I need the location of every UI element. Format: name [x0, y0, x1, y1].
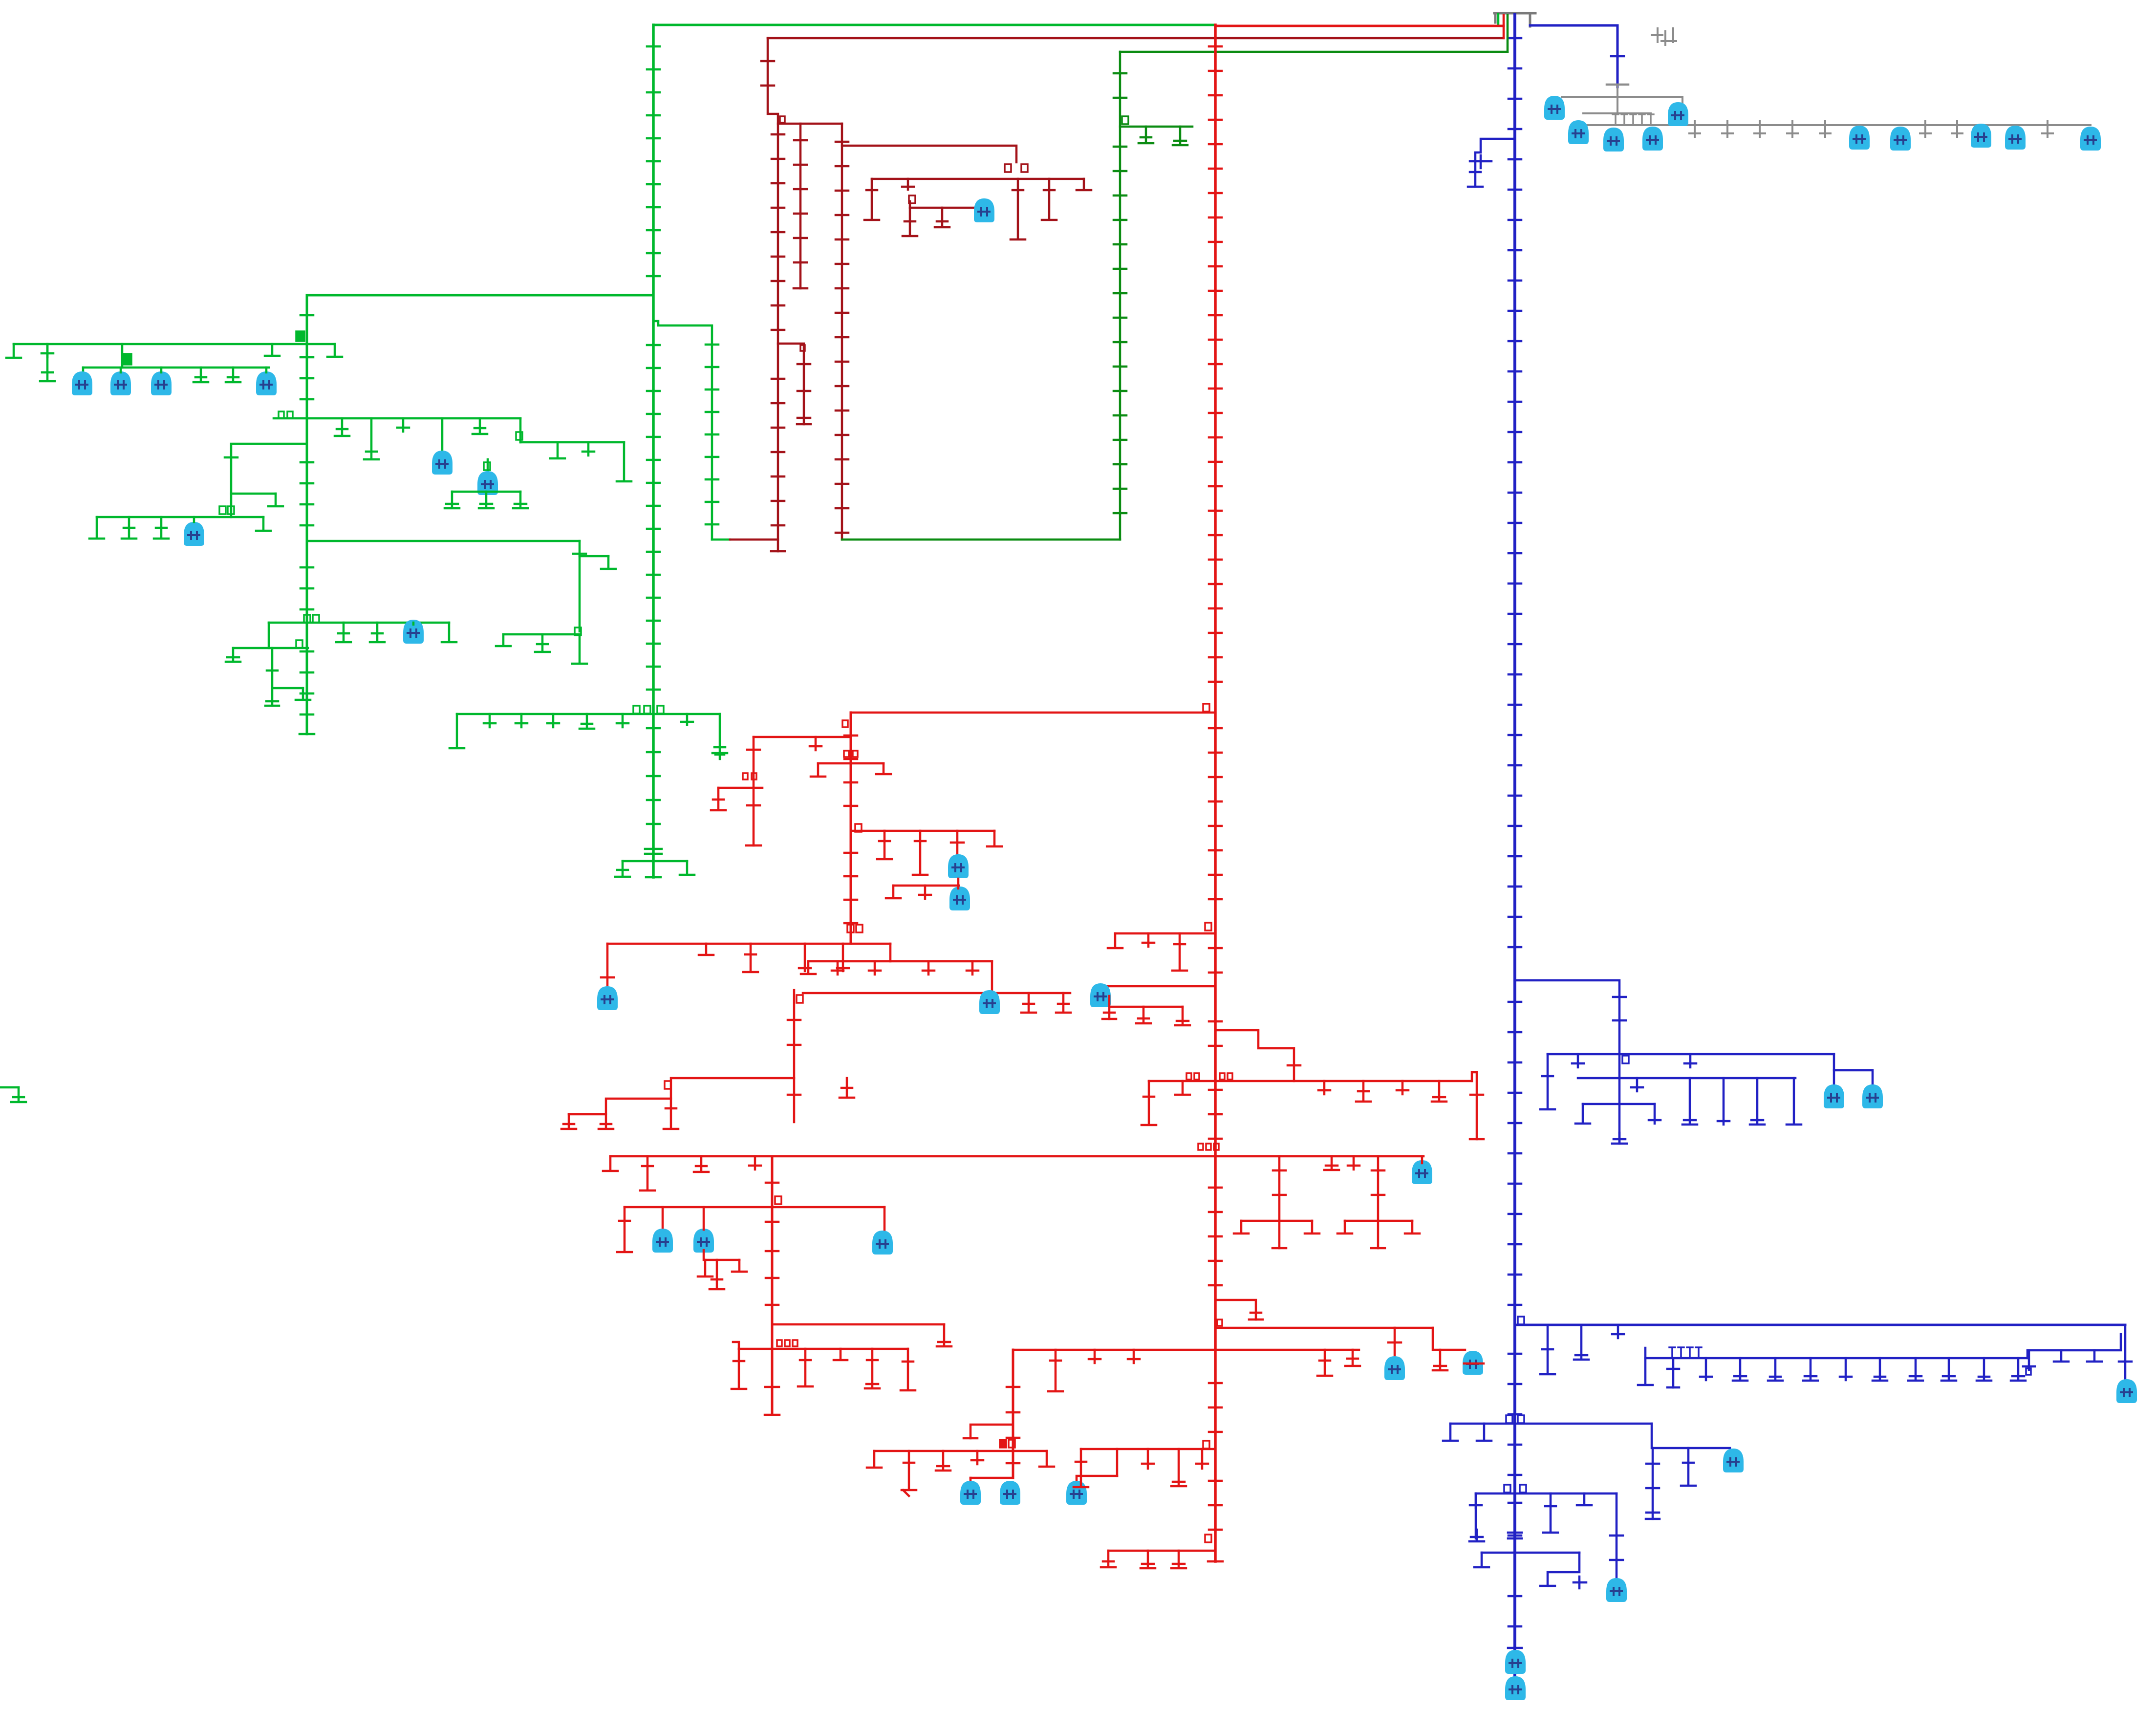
- transformer red-7: [1384, 1356, 1405, 1380]
- green bG bloblink: [193, 517, 195, 522]
- red spine1580 tap2370: [766, 1182, 778, 1184]
- green swI: [575, 627, 581, 635]
- red b3173 tap3: [1171, 1551, 1186, 1568]
- green b752 bloblink2: [120, 368, 122, 372]
- red b2762 tap6: [1345, 1350, 1360, 1366]
- red b2060 tap1: [1136, 1007, 1151, 1023]
- red T5 tap5: [837, 944, 849, 971]
- red b2717 jog hang: [1433, 1350, 1447, 1370]
- red RV3 bloblink: [970, 1477, 1013, 1479]
- red bus2032: [803, 992, 1070, 995]
- blue S2 junction switch: [1518, 1317, 1524, 1324]
- red b2208 tap5: [1432, 1081, 1446, 1102]
- transformer maroon-1: [974, 198, 994, 222]
- red b2208 tap3: [1356, 1081, 1371, 1102]
- green b1461 tap6: [681, 714, 693, 725]
- maroon trunk MV2: [841, 124, 843, 540]
- red b2969 tap1: [902, 1451, 916, 1490]
- red swT4: [855, 824, 862, 832]
- red C1 spine ticks: [747, 749, 760, 751]
- red b1818 tap: [919, 886, 931, 899]
- green bus704: [14, 343, 335, 346]
- blue riser tap: [1611, 55, 1624, 58]
- red b2710 rightdrop: [937, 1324, 951, 1346]
- red spine RV2: [850, 713, 852, 944]
- transformer red-5: [1090, 983, 1111, 1007]
- green b704 hang2: [265, 344, 280, 356]
- transformer blue btm-right: [1606, 1578, 1627, 1602]
- transformer red-14: [1066, 1481, 1087, 1505]
- blue S2 sub tap 7: [1840, 1358, 1852, 1380]
- red b2370 tap1: [640, 1156, 655, 1190]
- red bus3173: [1108, 1550, 1215, 1552]
- green b752 bloblink4: [265, 368, 268, 372]
- transformer gray-6: [1849, 126, 1870, 150]
- red b2208 jog tap: [1470, 1094, 1483, 1096]
- green bC blobdrop: [441, 418, 444, 473]
- red b3173 tap1: [1101, 1551, 1116, 1567]
- green b1461 hang R: [712, 714, 727, 753]
- maroon v1638 end bar: [794, 287, 807, 290]
- blue S1 tap 2: [1572, 1054, 1584, 1067]
- red C1 hangL: [711, 788, 726, 810]
- transformer red-11: [693, 1229, 714, 1253]
- blue S2 sub hang2 end: [1667, 1386, 1679, 1389]
- red stair tapA: [561, 1114, 576, 1129]
- red b2470 blobdrop2: [703, 1207, 705, 1230]
- red b2208 tap2: [1318, 1081, 1330, 1094]
- maroon lower branch: [778, 344, 804, 424]
- red T6 tap3: [923, 961, 934, 974]
- green bI end: [572, 634, 587, 664]
- blue bottom junction sw1: [1504, 1485, 1510, 1493]
- transformer gray-3: [1603, 128, 1624, 151]
- gray link down: [1682, 97, 1683, 125]
- blue S2 sub hang 10: [1941, 1358, 1956, 1381]
- red T3 sw2: [853, 751, 858, 757]
- gray upper lateral: [1562, 96, 1682, 98]
- red busT5: [607, 943, 890, 945]
- red spine1580 lowtap: [766, 1221, 778, 1223]
- blue S1 junction switch: [1622, 1056, 1629, 1063]
- red bus2470: [625, 1206, 884, 1209]
- transformer gray-1: [1544, 96, 1565, 120]
- blue S1 hang 1: [1540, 1054, 1555, 1109]
- red b2208 jog end: [1470, 1138, 1484, 1141]
- green bH joghang: [601, 556, 616, 569]
- blue riser to gray net: [1617, 25, 1619, 87]
- red sw2208d: [1228, 1073, 1232, 1080]
- maroon b366 tap2: [902, 179, 914, 190]
- blue S2 sub tap 2: [1667, 1358, 1679, 1387]
- green bK drop: [271, 648, 274, 706]
- red sw2208a: [1186, 1073, 1191, 1080]
- green sw1461b: [644, 706, 650, 714]
- blue S2 sub hang 4: [1733, 1358, 1747, 1381]
- red b1910 tap1: [1143, 933, 1154, 947]
- maroon lowbranch taps: [798, 364, 810, 418]
- red bus2018: [1103, 985, 1215, 988]
- red b2470 right end: [884, 1207, 886, 1232]
- green bus604: [307, 294, 653, 297]
- blue S1 bus A: [1548, 1053, 1834, 1056]
- transformer blue S3: [1723, 1449, 1744, 1472]
- transformer gray-8: [1971, 124, 1991, 148]
- red spine1580 low: [765, 1387, 779, 1415]
- blue S2 right hang b: [2054, 1350, 2069, 1362]
- red bus1818: [893, 885, 959, 887]
- red b2060 hangR: [1175, 1007, 1190, 1025]
- red bus2578: [705, 1259, 739, 1261]
- green subG link: [231, 444, 307, 517]
- gray tap 3: [1754, 121, 1765, 137]
- green swK: [296, 640, 302, 648]
- red b2762 tap4: [1128, 1350, 1140, 1363]
- green b704 hang L: [6, 344, 21, 358]
- red head stub: [1503, 15, 1505, 38]
- red sw2760a: [777, 1340, 782, 1346]
- blue S1 low hang 5: [1750, 1078, 1765, 1125]
- red bus2760: [739, 1348, 908, 1350]
- red b2717 blobdrop tick: [1388, 1341, 1401, 1344]
- green bH vert taps: [573, 553, 586, 555]
- red stair1: [569, 1078, 794, 1114]
- red b2762 tap2: [1048, 1350, 1063, 1391]
- green bK drop end: [265, 671, 279, 706]
- blue trunk tail: [1513, 1628, 1516, 1676]
- green bK joghang: [296, 688, 310, 700]
- red blob3 link: [1077, 1476, 1117, 1483]
- green sw1461a: [633, 706, 640, 714]
- maroon sw332a: [1005, 164, 1011, 172]
- green b1461 tap5: [617, 714, 628, 727]
- red b2969 tap3: [971, 1451, 983, 1464]
- green swG2: [228, 506, 234, 514]
- maroon sw253: [780, 116, 785, 123]
- green bE hang3: [617, 442, 631, 481]
- green sw b704: [122, 354, 131, 365]
- transformer green-8: [403, 620, 424, 644]
- green b704 drop250: [121, 344, 124, 368]
- blue tail tick: [1508, 1647, 1522, 1649]
- red T6 hangL: [801, 961, 816, 974]
- red sw2717: [1217, 1320, 1222, 1326]
- red bus2370: [610, 1155, 1423, 1158]
- red RV end bar: [1208, 1560, 1223, 1563]
- green b752 tap1: [194, 368, 208, 382]
- red bus2969: [874, 1450, 1047, 1452]
- blue btm hang A3: [1577, 1493, 1592, 1505]
- red b2969 tap1 hook: [903, 1490, 909, 1496]
- green orphan hang: [11, 1087, 26, 1102]
- red RV3 taps: [1007, 1387, 1019, 1463]
- blue S2 sub hang 12: [2011, 1358, 2026, 1381]
- red b2965 hang1: [1074, 1449, 1088, 1487]
- red sw2370c: [1214, 1144, 1219, 1150]
- red b2370 hangL: [603, 1156, 618, 1171]
- dgreen top wire: [1120, 51, 1508, 53]
- red stair tapE: [840, 1078, 854, 1098]
- blue main trunk BV: [1513, 15, 1516, 1628]
- blue S3 junction switch2: [1518, 1415, 1524, 1423]
- green busE905: [520, 441, 624, 444]
- red stair tapB: [599, 1114, 613, 1129]
- blue trunk load taps: [1509, 38, 1521, 947]
- dgreen branch259: [1120, 126, 1192, 128]
- transformer red-3: [597, 986, 618, 1010]
- red stair tapC: [664, 1099, 678, 1129]
- gray hash symbol: [1652, 28, 1676, 45]
- red T6 tap4: [967, 961, 978, 974]
- green busJ1274: [269, 622, 449, 624]
- transformer red-2: [949, 887, 970, 910]
- blue S2 sub hang 6: [1803, 1358, 1818, 1381]
- gray tap 2: [1722, 121, 1733, 137]
- red v2820: [1377, 1156, 1380, 1248]
- blue S1 low hang 3: [1682, 1078, 1697, 1125]
- red b2965 link3020: [1116, 1449, 1119, 1476]
- green bK hangL: [226, 648, 240, 662]
- green bC tap3: [397, 418, 409, 432]
- transformer green-1: [72, 371, 92, 395]
- red b3173 tap2: [1141, 1551, 1155, 1568]
- blue btm B right jog: [1548, 1553, 1579, 1586]
- blue S1 bus C: [1583, 1103, 1655, 1105]
- dgreen bottom wire: [842, 539, 1120, 541]
- green head stub: [1497, 14, 1500, 25]
- blue S2 right link: [2027, 1334, 2121, 1358]
- green busG1058: [97, 516, 263, 519]
- gray tap 4: [1787, 121, 1798, 137]
- blue trunk load taps lower: [1509, 1002, 1521, 1305]
- red b2470 blobdrop1: [662, 1207, 664, 1230]
- red RV taps mid: [1209, 728, 1222, 1046]
- transformer gray-9: [2005, 126, 2026, 150]
- blue S2 sub-bus: [1645, 1357, 2027, 1360]
- red cl2578 hang1: [698, 1260, 712, 1276]
- blue S2 hang 1: [1540, 1325, 1555, 1374]
- red v2618 taps: [1273, 1170, 1286, 1195]
- blue main low taps: [1509, 1502, 1521, 1504]
- green trunk GV1: [652, 25, 655, 877]
- red swT5a: [847, 925, 854, 932]
- green trunk GV2: [306, 295, 308, 734]
- blue btm tapA1: [1470, 1493, 1482, 1508]
- blue S1 right drop: [1833, 1054, 1835, 1084]
- green bH right vert: [579, 541, 581, 631]
- transformer green-6: [477, 471, 498, 495]
- transformer red-15: [872, 1231, 893, 1255]
- gray riser bar: [1607, 84, 1628, 86]
- red b2969 tap2: [936, 1451, 950, 1471]
- green b1461 tap1: [484, 714, 496, 727]
- red RV2 taps: [844, 736, 857, 923]
- gray tap 5: [1820, 121, 1831, 137]
- blue S2 sub hang 11: [1977, 1358, 1991, 1381]
- maroon MV1 upper taps: [761, 61, 774, 86]
- red swRV3b: [1009, 1440, 1015, 1448]
- red T5-T6 link: [889, 944, 892, 961]
- blue S1 low tap 4: [1718, 1078, 1729, 1125]
- blue branch wire: [1475, 139, 1515, 187]
- transformer blue tail-2: [1505, 1676, 1526, 1700]
- blue S1 busB tap: [1631, 1078, 1643, 1091]
- green GV2 load taps: [301, 315, 313, 714]
- green busC856: [274, 417, 520, 420]
- red T5 blobdrop tap: [601, 976, 614, 979]
- red b2032 tap1: [1021, 993, 1036, 1013]
- red T3 hangL: [811, 763, 825, 777]
- red sw2370b: [1206, 1144, 1211, 1150]
- maroon b366 hangR: [1077, 179, 1091, 190]
- blue S3 vert taps: [1646, 1464, 1659, 1513]
- red b2760 hang2: [798, 1349, 813, 1386]
- blue bottom bus B: [1482, 1552, 1579, 1554]
- red b2760 invT: [834, 1349, 847, 1360]
- red sw2455: [775, 1196, 781, 1204]
- green bus752: [83, 367, 269, 369]
- green swJ1: [304, 615, 310, 623]
- red b2760 lefthook: [733, 1342, 739, 1349]
- red br2660 end: [1249, 1313, 1263, 1320]
- blue S1 low tap 2: [1649, 1104, 1660, 1124]
- green bJ tap1: [336, 623, 351, 642]
- green right vert 1458: [653, 321, 712, 540]
- red T3 sw1: [844, 751, 849, 757]
- green bC hang2: [364, 418, 379, 459]
- red sw1910: [1205, 923, 1211, 930]
- green bG hangL: [89, 517, 104, 539]
- red sw2370a: [1198, 1144, 1203, 1150]
- transformer blue S2-end: [2116, 1379, 2137, 1403]
- green busH1107: [307, 540, 580, 542]
- red RV taps low: [1209, 1090, 1222, 1530]
- green swF: [484, 462, 490, 470]
- red b2760 hang3: [865, 1349, 880, 1388]
- green GV2 end: [300, 723, 314, 734]
- gray net riser: [1617, 86, 1618, 113]
- blue S1 low hang 1: [1575, 1104, 1590, 1124]
- red T5 hang1: [699, 944, 713, 955]
- blue S2 sub hang 9: [1908, 1358, 1923, 1381]
- blue S2 main bus: [1515, 1324, 2125, 1326]
- blue btm right vert: [1616, 1493, 1618, 1584]
- red b2760 hang1: [732, 1349, 746, 1389]
- red b1910 hangL: [1108, 933, 1122, 948]
- gray tap 6: [1920, 121, 1931, 137]
- red C1 sw1: [743, 773, 748, 779]
- red v2618 end: [1272, 1247, 1286, 1250]
- red sb2498a hangR: [1305, 1221, 1319, 1233]
- maroon b425 tap2: [935, 208, 949, 227]
- green swC1: [279, 411, 284, 418]
- green bI tap1: [535, 634, 550, 652]
- blue btm leftdrop: [1475, 1493, 1477, 1538]
- red bus2762: [1013, 1349, 1359, 1351]
- green bC hang1: [335, 418, 349, 436]
- red swT1: [1203, 704, 1209, 712]
- transformer gray-2: [1568, 120, 1589, 144]
- red sw2032: [797, 995, 803, 1003]
- red swRV2top: [842, 720, 848, 727]
- green swJ2: [313, 615, 319, 623]
- red T5 tap4: [799, 944, 811, 971]
- gray switch bank: [1613, 114, 1654, 125]
- blue S3 hang: [1681, 1448, 1696, 1486]
- red cl2578 hang3: [732, 1260, 747, 1272]
- transformer red-13: [1000, 1481, 1020, 1505]
- blue S2 sub hang 1: [1638, 1358, 1653, 1385]
- red b2969 hangL: [867, 1451, 882, 1468]
- blue S1 busA tap x: [1684, 1054, 1696, 1067]
- green btm hang R: [680, 861, 694, 875]
- maroon MV1 end bar: [771, 550, 785, 553]
- green b704 tap1: [42, 344, 53, 357]
- green swG1: [219, 506, 226, 514]
- maroon sw332b: [1021, 164, 1028, 172]
- red b2470 tap1: [617, 1207, 632, 1252]
- blue S3 hang b: [1477, 1424, 1491, 1441]
- green bottom bus: [623, 860, 687, 863]
- blue bottom junction sw2: [1520, 1485, 1526, 1493]
- red busT3: [818, 762, 884, 765]
- red busT6: [808, 960, 992, 963]
- green btm hang L: [615, 861, 630, 877]
- blue S2 far switch: [2026, 1368, 2031, 1375]
- red b2208 hangL: [1142, 1081, 1156, 1125]
- red b1818 bloblink: [957, 879, 960, 888]
- red T4 hangR: [987, 831, 1002, 846]
- red busT2: [754, 736, 851, 738]
- green sw1461c: [657, 706, 664, 714]
- green bG tap1: [122, 517, 136, 539]
- gray tap 7: [1952, 121, 1962, 137]
- maroon lowbranch end: [797, 423, 811, 426]
- red RV3 jog: [970, 1425, 1013, 1438]
- red top wire: [1215, 25, 1504, 27]
- transformer gray-10: [2080, 127, 2101, 151]
- red stair tick: [1288, 1064, 1300, 1067]
- red b2965 tap3: [1171, 1449, 1186, 1486]
- green bI hangL: [496, 634, 511, 646]
- red b2208 tap4: [1397, 1081, 1408, 1094]
- blue S2 sub tap 3: [1700, 1358, 1712, 1380]
- red v2820 taps: [1372, 1170, 1384, 1195]
- red sb2498a hangL: [1234, 1221, 1249, 1233]
- red b2018 drop end: [1102, 1013, 1116, 1019]
- maroon top wire: [768, 37, 1504, 40]
- green busI1298: [503, 633, 580, 636]
- red T4 tap1: [877, 831, 892, 859]
- green bG hangR: [256, 517, 271, 531]
- blue S2 hang 2: [1574, 1325, 1589, 1360]
- blue S1 spine: [1618, 1054, 1621, 1144]
- transformer green-7: [184, 522, 204, 546]
- blue S3 vert: [1652, 1448, 1654, 1519]
- red T4 tap2: [913, 831, 927, 875]
- transformer blue S1-b: [1862, 1084, 1883, 1108]
- green subG tap: [225, 456, 237, 459]
- green GV1 tee bars: [645, 849, 662, 854]
- red T6 tap2: [869, 961, 881, 974]
- green swC2: [287, 411, 293, 418]
- green bF hang1: [445, 492, 459, 508]
- green b752 bloblink1: [82, 368, 85, 372]
- red T5 blobdrop: [606, 944, 609, 986]
- green bC right corner: [519, 418, 522, 442]
- transformer green-5: [432, 451, 453, 475]
- green swE: [516, 432, 522, 440]
